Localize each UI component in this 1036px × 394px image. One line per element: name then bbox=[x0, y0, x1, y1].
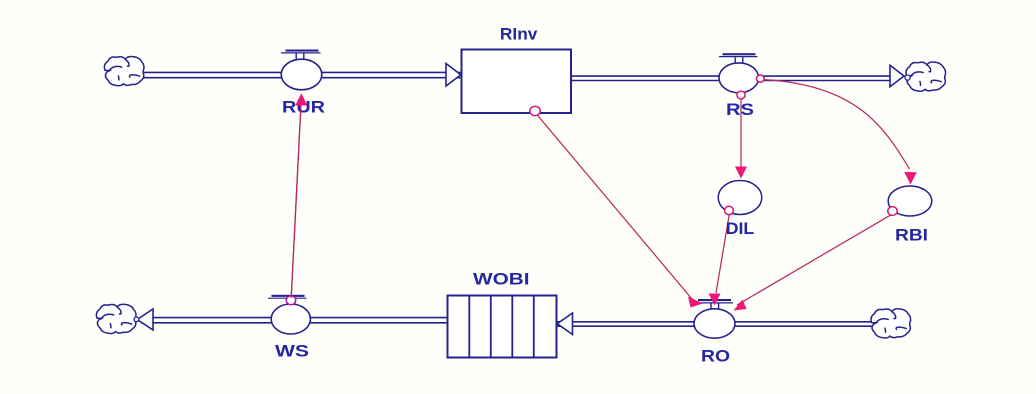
svg-text:RO: RO bbox=[701, 348, 730, 366]
svg-text:DIL: DIL bbox=[726, 220, 755, 238]
svg-text:RInv: RInv bbox=[500, 26, 538, 44]
svg-text:RBI: RBI bbox=[895, 227, 928, 245]
svg-text:RS: RS bbox=[726, 101, 754, 119]
svg-text:WOBI: WOBI bbox=[473, 271, 530, 289]
svg-text:WS: WS bbox=[275, 343, 309, 361]
